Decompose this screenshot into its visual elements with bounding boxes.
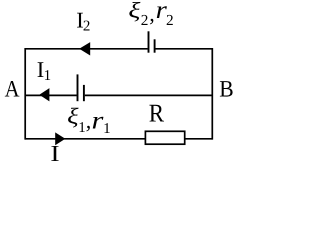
wire: top branch left segment bbox=[25, 48, 147, 50]
svg-text:2: 2 bbox=[166, 12, 174, 29]
svg-text:2: 2 bbox=[83, 19, 91, 35]
arrow: current I2 direction (left) on top branch bbox=[79, 42, 90, 55]
svg-text:1: 1 bbox=[103, 121, 111, 137]
svg-text:2: 2 bbox=[141, 12, 149, 29]
wire: bottom branch left segment bbox=[25, 138, 145, 140]
svg-text:R: R bbox=[149, 99, 164, 128]
svg-text:ξ: ξ bbox=[128, 0, 141, 23]
battery xi2 long plate bbox=[148, 31, 150, 52]
wire: middle branch A-B left segment bbox=[25, 94, 77, 96]
battery xi1 short plate bbox=[83, 85, 85, 101]
svg-text:ξ: ξ bbox=[67, 104, 79, 129]
label I2 bbox=[76, 7, 90, 34]
svg-text:1: 1 bbox=[78, 120, 86, 136]
wire: right side of loop bbox=[211, 48, 213, 140]
label xi1,r1 bbox=[67, 104, 111, 137]
svg-text:I: I bbox=[50, 141, 59, 166]
wire: bottom branch right segment bbox=[185, 138, 213, 140]
arrow: current I direction (right) on bottom branch bbox=[55, 132, 65, 145]
arrow: current I1 direction (left) on middle branch bbox=[39, 88, 49, 101]
svg-text:r: r bbox=[92, 107, 104, 134]
battery xi1 long plate bbox=[77, 74, 79, 101]
svg-text:1: 1 bbox=[44, 68, 52, 84]
wire: middle branch A-B right segment bbox=[85, 94, 213, 96]
resistor R box bbox=[145, 131, 184, 144]
battery xi2 short plate bbox=[154, 39, 156, 52]
wire: left side of loop bbox=[24, 48, 26, 140]
label I1 bbox=[37, 57, 51, 84]
svg-text:,: , bbox=[149, 1, 155, 26]
svg-text:A: A bbox=[5, 77, 20, 103]
svg-text:B: B bbox=[219, 77, 233, 103]
svg-text:,: , bbox=[86, 108, 92, 133]
wire: top branch right segment bbox=[156, 48, 213, 50]
label xi2,r2 bbox=[128, 0, 173, 29]
